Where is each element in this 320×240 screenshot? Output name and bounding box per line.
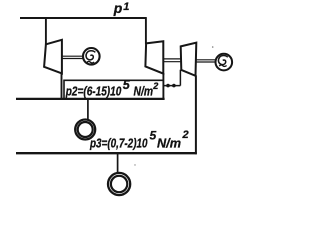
turbine T3 (LP stage) (181, 43, 197, 76)
p2 value label (65, 78, 158, 98)
shaft T3 to G2 (197, 60, 216, 62)
wire: inlet drop to turbine T2 (145, 17, 147, 44)
wire: p2 pipe / box bottom (16, 98, 165, 100)
throttle valve V1 (double circle) (75, 120, 95, 140)
svg-text:5: 5 (150, 129, 157, 143)
wire: T3 exhaust down (195, 75, 197, 154)
wire: T2 right edge down to box corner (162, 73, 164, 100)
svg-text:1: 1 (123, 1, 129, 13)
svg-text:N/m: N/m (157, 135, 181, 150)
shaft T1 to G1 (63, 56, 84, 58)
wire: inlet drop to turbine T1 (45, 17, 47, 44)
svg-text:2: 2 (152, 81, 158, 91)
wire: stub down to throttle valve V1 (87, 99, 89, 120)
wire: p3 pipe line (16, 152, 197, 154)
wire: top supply pipe p1 (20, 17, 147, 19)
svg-text:N/m: N/m (134, 83, 154, 98)
wire: crossover pipe with coupling dots (164, 70, 180, 86)
turbine T1 (44, 40, 62, 74)
p3 value label (89, 129, 188, 151)
speck (scan noise) (212, 46, 214, 48)
svg-text:p: p (113, 0, 123, 16)
throttle valve V2 (double circle) (108, 173, 130, 195)
node p1 label (113, 0, 130, 16)
generator G1 (83, 48, 100, 65)
generator G2 (216, 54, 233, 71)
svg-text:5: 5 (123, 78, 131, 92)
wire: T1 exhaust down (61, 73, 63, 99)
svg-text:p2=(6-15)10: p2=(6-15)10 (65, 83, 122, 98)
p2 label box (64, 80, 164, 99)
svg-text:p3=(0,7-2)10: p3=(0,7-2)10 (89, 135, 148, 150)
wire: stub down to throttle valve V2 (117, 153, 119, 173)
svg-text:2: 2 (182, 129, 189, 141)
shaft T2 to T3 (164, 59, 181, 62)
turbine T2 (HP stage) (145, 41, 163, 73)
